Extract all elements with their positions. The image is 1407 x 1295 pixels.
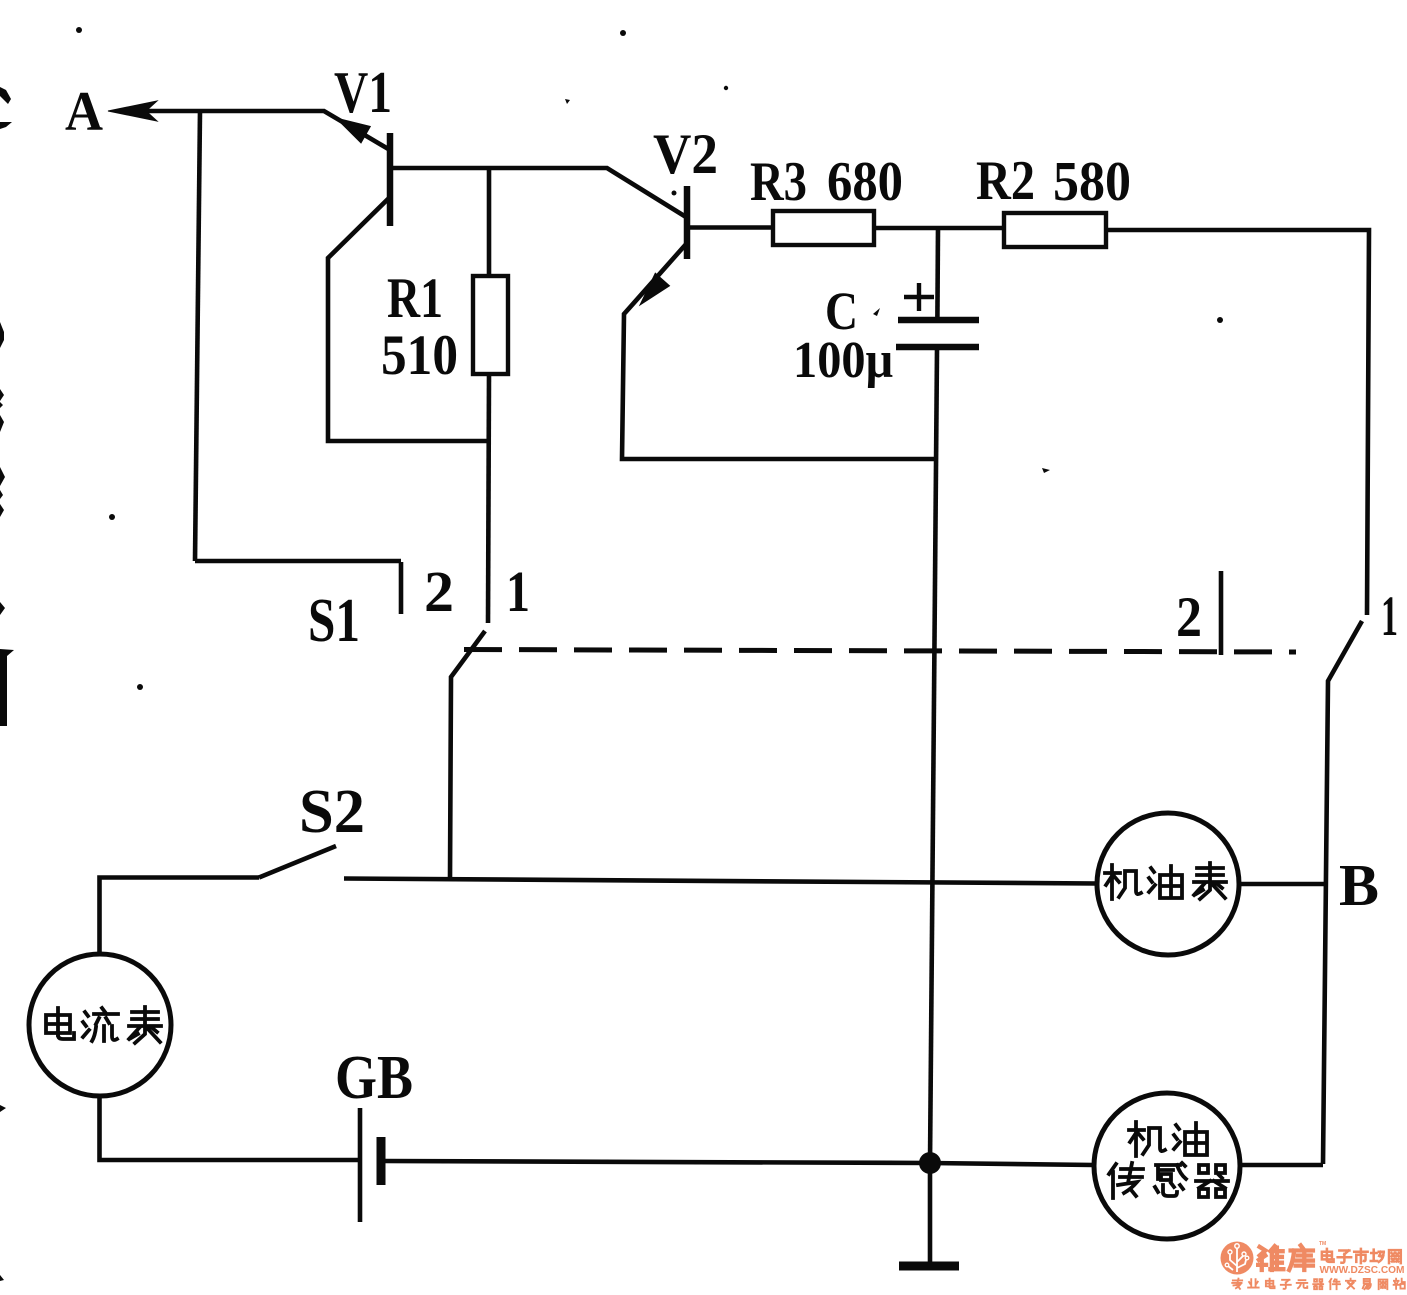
watermark logo icon circle [1221, 1242, 1254, 1275]
scan fragment left edge sliver 4 [0, 467, 5, 499]
wire V2 collector to R3 [689, 225, 773, 230]
watermark slogan text [1232, 1279, 1405, 1290]
svg-text:B: B [1339, 852, 1379, 918]
scan fragment left edge wedge [0, 122, 12, 129]
scan fragment left edge sliver 3 [0, 415, 4, 432]
svg-text:2: 2 [1176, 586, 1202, 649]
svg-text:S1: S1 [308, 587, 360, 655]
bottom rail battery to junction to oil sensor [383, 1161, 1094, 1165]
svg-text:680: 680 [827, 151, 903, 213]
resistor R1 body [473, 276, 508, 374]
svg-text:1: 1 [506, 559, 530, 624]
svg-text:510: 510 [381, 324, 458, 387]
stray speck near V2 [672, 191, 677, 196]
ammeter circle (dian liu biao) [29, 954, 171, 1096]
svg-text:1: 1 [1381, 585, 1398, 648]
transistor V2 emitter arrowhead [640, 273, 670, 305]
switch S1 movable arm [450, 631, 485, 878]
svg-text:V1: V1 [334, 59, 392, 125]
resistor R2 body [1004, 213, 1106, 247]
wire oil gauge to node B [1239, 882, 1326, 887]
watermark dianzishichangwang text [1322, 1249, 1401, 1263]
transistor V1 bar [387, 133, 394, 226]
wire R3 to R2 [874, 226, 1004, 231]
dashed gang line between S1 and right switch [464, 650, 1296, 653]
resistor R3 body [773, 211, 874, 245]
oil sensor text line 2 [1109, 1163, 1228, 1198]
right switch terminal 2 tick [1219, 571, 1224, 655]
stray speck mid left [137, 684, 143, 690]
oil gauge circle (ji you biao) [1097, 813, 1239, 955]
wire S2 left to ammeter [100, 878, 260, 955]
wire from base node down to R1 [487, 168, 492, 276]
wire junction down to ground [928, 1163, 933, 1263]
wire V1 base to V2 base [390, 168, 686, 217]
stray speck above R3 [724, 86, 728, 90]
svg-text:TM: TM [1319, 1241, 1326, 1247]
battery GB long plate [358, 1108, 363, 1222]
wire from A to V1 emitter [119, 111, 390, 150]
svg-text:R3: R3 [750, 151, 807, 213]
stray speck top left [76, 27, 82, 33]
watermark weiku text [1258, 1245, 1313, 1269]
scan fragment left edge small wedge lower [0, 1105, 6, 1112]
ammeter text [46, 1007, 161, 1043]
wire R2 right to corner and down to switch terminal 1 right [1106, 230, 1369, 615]
scan fragment left edge sliver 1 [0, 322, 4, 348]
scan fragment left edge dot [0, 602, 5, 615]
scan fragment bottom left [0, 1275, 4, 1281]
svg-text:S2: S2 [299, 778, 365, 846]
stray speck left area [109, 514, 115, 520]
transistor V2 bar [684, 186, 691, 259]
stray speck top middle [620, 30, 626, 36]
svg-text:2: 2 [424, 559, 454, 624]
svg-text:R1: R1 [387, 267, 443, 330]
wire from R3-R2 node down to capacitor [935, 228, 940, 317]
oil sensor circle (ji you chuan gan qi) [1094, 1093, 1240, 1239]
stray speck right of capacitor [1217, 317, 1223, 323]
wire R1 bottom to S1 terminal 1 [488, 374, 489, 623]
svg-text:V2: V2 [653, 123, 718, 186]
oil sensor text line 1 [1129, 1122, 1207, 1156]
bottom junction dot [919, 1152, 941, 1174]
svg-text:A: A [65, 81, 104, 143]
scan fragment left edge diagonal blob upper [0, 87, 11, 104]
wire left vertical from A line down to S1 [195, 111, 200, 561]
capacitor C top plate [898, 317, 979, 324]
right switch movable arm down to oil sensor [1323, 621, 1362, 1164]
capacitor C bottom plate [896, 344, 979, 351]
battery GB short plate [377, 1137, 386, 1185]
main horizontal bus from S2 to oil gauge [344, 879, 1097, 884]
arrowhead at node A [108, 101, 157, 121]
stray speck left of V2 label [565, 99, 570, 104]
transistor V1 emitter arrowhead [336, 118, 370, 143]
svg-text:GB: GB [335, 1044, 413, 1112]
svg-text:580: 580 [1053, 151, 1131, 213]
switch S1 terminal 2 tick [399, 562, 404, 614]
transistor V1 collector wire [328, 197, 489, 441]
svg-text:WWW.DZSC.COM: WWW.DZSC.COM [1320, 1264, 1405, 1276]
svg-text:100μ: 100μ [793, 332, 893, 389]
scan fragment left edge sliver 2 [0, 389, 4, 408]
scan fragment left edge vertical bar [0, 649, 14, 726]
wire S1 upper horizontal [195, 559, 401, 564]
ground bar [899, 1262, 959, 1271]
wire ammeter down to bottom rail [100, 1096, 359, 1160]
stray speck right of C label [873, 308, 880, 316]
switch S2 movable arm [259, 846, 336, 878]
scan fragment left edge sliver 5 [0, 504, 4, 517]
svg-text:R2: R2 [976, 150, 1035, 212]
wire capacitor down to bottom junction [930, 350, 937, 1163]
transistor V2 emitter wire [622, 243, 938, 459]
wire oil sensor right to vertical [1240, 1163, 1323, 1168]
stray speck below R2 area [1042, 468, 1050, 473]
capacitor C plus sign [904, 283, 934, 311]
oil gauge text [1105, 863, 1226, 899]
